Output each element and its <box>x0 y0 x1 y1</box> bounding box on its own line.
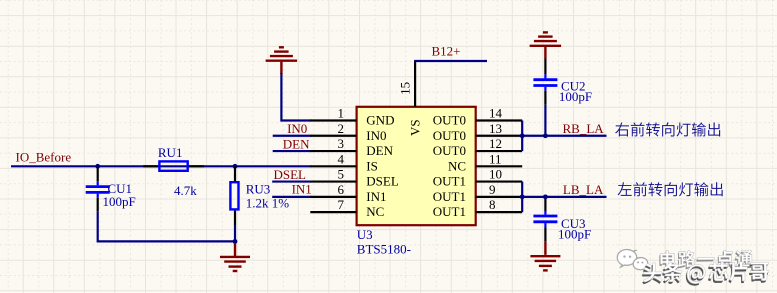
svg-text:DSEL: DSEL <box>274 167 307 182</box>
svg-text:BTS5180-: BTS5180- <box>357 242 411 257</box>
svg-text:10: 10 <box>489 167 502 182</box>
svg-text:5: 5 <box>338 167 345 182</box>
svg-text:7: 7 <box>338 197 345 212</box>
svg-text:RB_LA: RB_LA <box>563 121 605 136</box>
junction: ground rail at RU3 <box>233 239 238 244</box>
junction: CU3 tap <box>543 194 548 199</box>
svg-text:4: 4 <box>338 151 345 166</box>
ground (top right, above CU2) <box>530 32 562 58</box>
svg-text:GND: GND <box>366 113 394 128</box>
svg-text:3: 3 <box>338 136 345 151</box>
svg-text:RU1: RU1 <box>158 145 183 160</box>
svg-text:2: 2 <box>338 121 345 136</box>
svg-text:IN0: IN0 <box>366 128 386 143</box>
junction: CU2 tap <box>543 133 548 138</box>
pin 8 (OUT1) <box>433 197 522 219</box>
annotation text: left front turn lamp output <box>618 182 723 196</box>
svg-text:IN1: IN1 <box>366 189 386 204</box>
ground (bottom left, below RU3) <box>220 243 250 271</box>
ground (bottom right, below CU3) <box>530 241 560 270</box>
svg-text:OUT0: OUT0 <box>433 143 466 158</box>
svg-text:DEN: DEN <box>366 143 393 158</box>
svg-text:OUT0: OUT0 <box>433 128 466 143</box>
capacitor CU2 <box>533 59 557 105</box>
pin 11 (NC) <box>448 151 522 173</box>
svg-text:8: 8 <box>489 197 496 212</box>
wire: pin 1 (GND) to top ground <box>281 73 311 121</box>
pin 4 (IS) <box>310 151 378 173</box>
junction: pin 13 node <box>520 133 525 138</box>
svg-text:11: 11 <box>489 151 502 166</box>
svg-text:OUT0: OUT0 <box>433 113 466 128</box>
pin 14 (OUT0) <box>433 106 522 128</box>
wire: net B12+ power rail <box>414 60 487 62</box>
svg-text:IN1: IN1 <box>292 181 312 196</box>
wire: net IO_Before from left edge to pin 4 (IS) <box>11 165 311 167</box>
svg-text:1: 1 <box>338 106 345 121</box>
pin 10 (OUT1) <box>433 167 522 189</box>
svg-text:OUT1: OUT1 <box>433 189 466 204</box>
wire: net DEN to pin 3 <box>273 150 312 152</box>
watermark text line 2 <box>642 261 769 286</box>
wire: OUT1 tie pins 10-8 <box>521 182 523 213</box>
svg-text:RU3: RU3 <box>246 181 271 196</box>
svg-text:6: 6 <box>338 182 345 197</box>
resistor RU3 <box>230 166 238 226</box>
annotation text: right front turn lamp output <box>615 122 720 136</box>
svg-text:NC: NC <box>366 204 384 219</box>
pin 6 (IN1) <box>310 182 386 204</box>
svg-text:100pF: 100pF <box>558 227 591 242</box>
wire: LB_LA node to CU3 <box>544 197 546 199</box>
pin 1 (GND) <box>310 106 394 128</box>
svg-text:100pF: 100pF <box>103 194 136 209</box>
junction: CU1 tap on IO_Before wire <box>95 164 100 169</box>
pin 9 (OUT1) <box>433 182 522 204</box>
watermark text line 1 <box>659 250 753 270</box>
ground (top, at pin 1 GND) <box>266 47 298 74</box>
svg-text:DSEL: DSEL <box>366 174 399 189</box>
svg-text:15: 15 <box>398 82 413 95</box>
svg-text:U3: U3 <box>357 227 373 242</box>
svg-text:OUT1: OUT1 <box>433 174 466 189</box>
svg-text:IO_Before: IO_Before <box>16 150 72 165</box>
svg-text:VS: VS <box>408 119 423 136</box>
svg-text:OUT1: OUT1 <box>433 204 466 219</box>
IC U3 BTS5180 body <box>357 107 476 225</box>
svg-text:4.7k: 4.7k <box>174 183 197 198</box>
svg-text:B12+: B12+ <box>431 43 460 58</box>
pin 5 (DSEL) <box>310 167 399 189</box>
wire: OUT0 tie pins 14-12 <box>521 121 523 152</box>
wire: net IN1 to pin 6 <box>272 196 311 198</box>
svg-text:IS: IS <box>366 158 378 173</box>
svg-text:LB_LA: LB_LA <box>563 182 604 197</box>
resistor RU1 <box>143 161 204 170</box>
pin 2 (IN0) <box>310 121 386 143</box>
wire: CU1 bottom to ground rail <box>98 212 235 242</box>
watermark logo (speech bubbles) <box>617 248 649 272</box>
svg-text:9: 9 <box>489 182 496 197</box>
wire: net RB_LA <box>522 135 606 137</box>
pin 12 (OUT0) <box>433 136 522 158</box>
pin 13 (OUT0) <box>433 121 522 143</box>
svg-text:DEN: DEN <box>283 137 310 152</box>
svg-text:13: 13 <box>489 121 502 136</box>
wire: RU3 bottom to ground <box>234 226 236 243</box>
svg-text:12: 12 <box>489 136 502 151</box>
pin 7 (NC) <box>310 197 384 219</box>
pin 15 (VS) <box>398 61 423 136</box>
wire: net DSEL to pin 5 <box>272 180 311 182</box>
junction: RU3 tap on IO_Before wire <box>233 164 238 169</box>
svg-text:100pF: 100pF <box>559 89 592 104</box>
wire: net LB_LA <box>522 196 606 198</box>
wire: net IN0 to pin 2 <box>273 135 312 137</box>
svg-text:IN0: IN0 <box>287 121 307 136</box>
svg-text:14: 14 <box>489 106 503 121</box>
junction: pin 9 node <box>520 194 525 199</box>
capacitor CU1 <box>86 168 110 212</box>
svg-text:NC: NC <box>448 158 466 173</box>
pin 3 (DEN) <box>310 136 393 158</box>
wire: CU2 to RB_LA node <box>544 105 546 136</box>
capacitor CU3 <box>533 199 557 241</box>
